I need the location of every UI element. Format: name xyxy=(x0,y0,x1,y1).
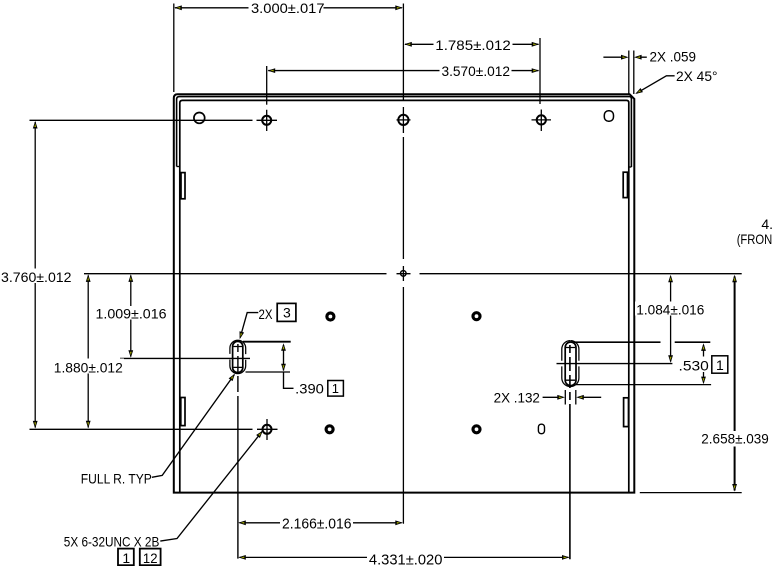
slot 2 centerline horizontal row xyxy=(557,363,673,365)
svg-text:1.009±.016: 1.009±.016 xyxy=(96,305,167,321)
part outline: inner bend tangent line xyxy=(180,100,629,492)
svg-text:2.166±.016: 2.166±.016 xyxy=(282,516,352,532)
extension line x=403.4 vertical centerline xyxy=(402,4,404,524)
part outline: mid bend line (flange thickness) xyxy=(177,97,632,167)
extension line x=173.8 vertical (3.000 left) xyxy=(173,4,175,93)
hole D crosshair (541.3,119.9) xyxy=(537,115,546,124)
svg-text:4.: 4. xyxy=(761,216,772,232)
svg-text:1.880±.012: 1.880±.012 xyxy=(54,359,123,375)
hole H ring (476.5,316.2) xyxy=(473,313,480,320)
leader 2X 45 deg xyxy=(637,76,675,93)
svg-text:3.760±.012: 3.760±.012 xyxy=(1,269,72,285)
extension line slot2 top y=342.2 xyxy=(572,341,711,343)
hole G ring (330.4,316.5) xyxy=(327,313,334,320)
svg-text:1: 1 xyxy=(122,550,130,566)
slot 1 arc-center ticks xyxy=(233,347,242,368)
extension line row y=429.3 (bottom hole row) xyxy=(30,428,253,430)
extension line slot2 bottom y=384.6 xyxy=(576,384,711,386)
svg-text:4.331±.020: 4.331±.020 xyxy=(369,552,443,566)
extension line slot1 top y=341.7 xyxy=(243,341,291,343)
dimension 1.084±.016 vertical xyxy=(670,277,672,362)
svg-text:1.084±.016: 1.084±.016 xyxy=(636,301,704,317)
extension line x=266.7 vertical xyxy=(266,66,268,105)
hole B crosshair (266.7,120.3) xyxy=(262,116,271,125)
svg-text:3: 3 xyxy=(283,305,291,321)
svg-text:(FRONT: (FRONT xyxy=(737,231,772,247)
svg-text:1.785±.012: 1.785±.012 xyxy=(435,37,511,53)
slot 1 left: inner obround xyxy=(233,341,243,372)
dimension .530 vertical xyxy=(703,345,705,383)
hole E obround top-right xyxy=(604,111,613,121)
extension line slot1 bottom y=372 xyxy=(246,371,291,373)
svg-text:3.570±.012: 3.570±.012 xyxy=(442,63,511,79)
svg-text:2X .059: 2X .059 xyxy=(650,49,697,65)
svg-text:2.658±.039: 2.658±.039 xyxy=(701,431,769,447)
leader 5X 6-32UNC to bottom hole xyxy=(160,432,262,541)
slot 1 centerline horizontal row xyxy=(120,357,250,359)
svg-text:1: 1 xyxy=(332,381,339,396)
svg-text:2X: 2X xyxy=(259,306,274,322)
extension lines .059 verticals xyxy=(629,51,634,95)
slot 1 left: outer thread arcs xyxy=(230,340,246,373)
svg-text:1: 1 xyxy=(716,357,724,373)
slot 2 right: inner obround xyxy=(565,342,576,386)
dimension 1.785±.012 line xyxy=(405,43,539,45)
tab lower-right xyxy=(624,398,629,427)
slot 2 right: outer thread arcs xyxy=(562,341,579,387)
slot 2 arc-center ticks xyxy=(566,348,575,381)
dimension 2X .059 arrows xyxy=(603,56,646,58)
hole I crosshair bottom (267,429.3) xyxy=(263,425,272,434)
tab lower-left xyxy=(181,398,185,426)
svg-text:2X .132: 2X .132 xyxy=(494,390,541,406)
hole A (plain circle top-left) xyxy=(194,113,205,124)
tab upper-left xyxy=(181,173,185,199)
hole C crosshair (403.4,119.9) xyxy=(398,115,408,125)
svg-text:.530: .530 xyxy=(679,358,710,374)
svg-text:FULL R. TYP: FULL R. TYP xyxy=(81,471,152,487)
part outline: left jog at bend end xyxy=(177,166,180,168)
extension line x=540 vertical xyxy=(539,38,541,104)
leader 2X boxed-3 to slot1 xyxy=(240,313,258,338)
svg-text:.390: .390 xyxy=(295,380,324,396)
part outline: right jog at bend end xyxy=(629,166,632,168)
leader FULL R. TYP to slot1 bottom xyxy=(152,375,235,478)
svg-text:5X 6-32UNC X 2B: 5X 6-32UNC X 2B xyxy=(64,534,160,550)
dimension 3.760±.012 vertical xyxy=(34,122,36,428)
dimension 1.880±.012 vertical xyxy=(87,276,89,428)
dimension .390 vertical with elbow leader xyxy=(284,345,294,388)
extension lines 2X .132 verticals xyxy=(565,390,576,405)
slot 2 centerline vertical xyxy=(569,345,571,559)
hole F center small crosshair (403.3,273.4) xyxy=(401,271,407,277)
boxed 1 and 12 bottom xyxy=(118,549,134,566)
dimension 2.658±.039 vertical xyxy=(734,277,736,491)
hole L D-shape (541,428.9) xyxy=(538,424,544,434)
dimension 2X .132 arrows xyxy=(543,396,602,398)
extension line row y=273.7 (middle hole row) xyxy=(84,273,742,275)
dimension 3.570±.012 line xyxy=(268,70,538,72)
extension line bottom edge right y=492.6 xyxy=(640,492,742,494)
svg-text:2X 45°: 2X 45° xyxy=(676,68,718,84)
hole K ring (476.5,429.3) xyxy=(473,426,480,433)
dimension 3.000±.017 line xyxy=(175,7,402,9)
svg-text:12: 12 xyxy=(143,550,158,566)
part outline: outer profile of sheet-metal bracket xyxy=(174,94,635,492)
dimension 1.009±.016 vertical xyxy=(130,276,132,357)
svg-text:3.000±.017: 3.000±.017 xyxy=(251,0,325,16)
dimension 2.166±.016 line xyxy=(240,522,402,524)
dimension 4.331±.020 line xyxy=(240,556,569,558)
tab upper-right xyxy=(623,172,627,197)
slot 1 centerline vertical xyxy=(237,344,239,559)
hole J ring (329.6,429.3) xyxy=(326,426,333,433)
extension line row y=120.3 (top hole row) xyxy=(30,119,253,121)
